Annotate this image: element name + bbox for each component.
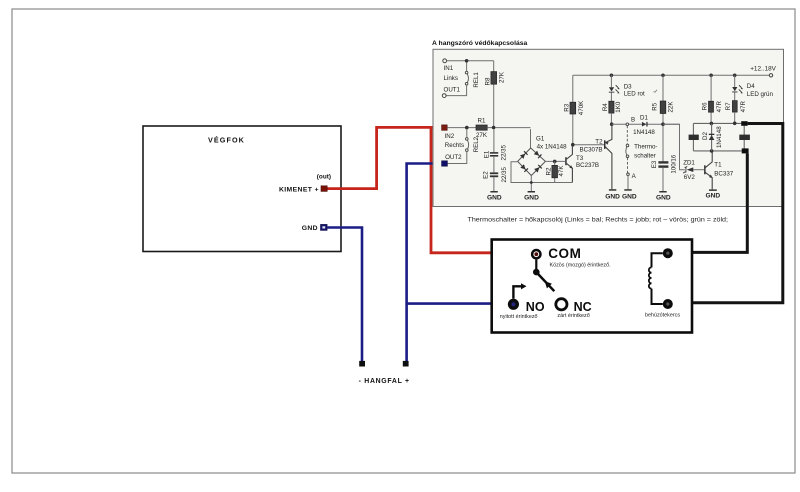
thick wire outer (upper terminal to coil bottom) bbox=[671, 124, 783, 303]
svg-text:27K: 27K bbox=[499, 71, 506, 83]
svg-text:T2: T2 bbox=[595, 139, 603, 146]
amplifier box VEGFOK bbox=[143, 126, 341, 252]
wire GND to speaker minus (blue) bbox=[328, 228, 363, 362]
relay NC terminal bbox=[556, 299, 592, 320]
terminal speaker plus bbox=[403, 361, 409, 367]
diode bridge G1 bbox=[518, 129, 567, 175]
svg-text:Links: Links bbox=[444, 75, 458, 82]
svg-text:R5: R5 bbox=[652, 102, 659, 110]
relay coil second rect bbox=[739, 126, 750, 149]
svg-text:GND: GND bbox=[524, 194, 539, 201]
svg-text:4x 1N4148: 4x 1N4148 bbox=[537, 144, 567, 151]
label (out) bbox=[317, 173, 331, 180]
node B wire with D1 bbox=[610, 117, 680, 126]
svg-text:NO: NO bbox=[526, 300, 545, 314]
ground under T2 bbox=[605, 189, 620, 200]
ground under T1 bbox=[705, 189, 720, 199]
relay coil behuzotekercs bbox=[645, 248, 680, 318]
svg-text:47R: 47R bbox=[740, 100, 747, 112]
svg-text:E3: E3 bbox=[651, 160, 658, 168]
svg-text:22K: 22K bbox=[668, 101, 675, 113]
node IN1 bbox=[443, 59, 454, 72]
relay NO terminal bbox=[500, 283, 545, 320]
terminal GND bbox=[302, 224, 327, 232]
node OUT1 bbox=[442, 87, 460, 98]
capacitor E2 bbox=[482, 157, 508, 183]
svg-text:D3: D3 bbox=[624, 84, 632, 91]
diode D1 bbox=[633, 114, 655, 135]
svg-text:Rechts: Rechts bbox=[445, 142, 464, 149]
svg-text:G1: G1 bbox=[536, 136, 545, 143]
svg-text:OUT1: OUT1 bbox=[444, 87, 461, 94]
svg-text:B: B bbox=[631, 117, 635, 124]
wire IN2 node to relay COM (red) bbox=[431, 127, 533, 252]
svg-text:REL1: REL1 bbox=[473, 72, 480, 88]
label HANGFAL bbox=[359, 378, 410, 385]
svg-text:IN2: IN2 bbox=[445, 133, 455, 140]
svg-text:100/16: 100/16 bbox=[670, 154, 677, 173]
zener ZD1 bbox=[663, 124, 704, 181]
svg-text:E2: E2 bbox=[482, 171, 489, 179]
svg-text:GND: GND bbox=[656, 194, 671, 201]
svg-text:BC337: BC337 bbox=[714, 170, 733, 177]
svg-text:GND: GND bbox=[622, 193, 637, 200]
wire T3 collector to T2 base bbox=[571, 143, 604, 147]
svg-text:ZD1: ZD1 bbox=[683, 160, 695, 167]
svg-text:T3: T3 bbox=[576, 155, 584, 162]
terminal OUT2 bbox=[442, 154, 463, 166]
svg-text:A hangszóró védőkapcsolása: A hangszóró védőkapcsolása bbox=[432, 40, 528, 47]
svg-text:1N4148: 1N4148 bbox=[633, 129, 655, 136]
svg-text:VÉGFOK: VÉGFOK bbox=[208, 136, 245, 145]
resistor R8 bbox=[485, 61, 506, 128]
relay box bbox=[492, 240, 692, 333]
resistor R5 bbox=[652, 75, 675, 161]
caption text bbox=[468, 217, 729, 224]
ground under G1 bbox=[524, 176, 539, 202]
relay contact REL1 bbox=[444, 62, 480, 95]
svg-text:47R: 47R bbox=[716, 100, 723, 112]
svg-text:GND: GND bbox=[487, 194, 502, 201]
coil terminal upper bbox=[741, 121, 747, 126]
svg-text:1N4148: 1N4148 bbox=[716, 126, 723, 148]
svg-text:6V2: 6V2 bbox=[684, 174, 696, 181]
svg-text:nyitott érintkező: nyitott érintkező bbox=[500, 314, 538, 320]
svg-text:BC307B: BC307B bbox=[580, 146, 603, 153]
svg-text:Thermo-: Thermo- bbox=[634, 144, 657, 151]
relay contact REL2 bbox=[445, 129, 480, 163]
svg-text:R8: R8 bbox=[485, 77, 492, 85]
relay switch arm bbox=[533, 260, 554, 292]
resistor R4 bbox=[602, 101, 622, 124]
svg-text:zárt érintkező: zárt érintkező bbox=[557, 313, 589, 319]
svg-text:22/35: 22/35 bbox=[501, 144, 508, 160]
svg-text:R2: R2 bbox=[546, 167, 553, 175]
coil network rails bbox=[693, 122, 741, 153]
resistor R7 bbox=[725, 100, 747, 123]
svg-text:GND: GND bbox=[705, 193, 720, 200]
svg-text:T1: T1 bbox=[714, 161, 722, 168]
thick wire inner (lower terminal to coil top) bbox=[671, 153, 747, 252]
svg-text:BC237B: BC237B bbox=[576, 162, 599, 169]
capacitor E3 bbox=[651, 154, 677, 191]
svg-text:R6: R6 bbox=[702, 102, 709, 110]
wire OUT2 to speaker plus (blue) bbox=[407, 164, 442, 362]
svg-text:D1: D1 bbox=[640, 114, 648, 121]
LED D3 bbox=[609, 75, 645, 101]
thermoswitch bbox=[626, 126, 658, 190]
svg-text:R7: R7 bbox=[725, 102, 732, 110]
transistor T3 bbox=[565, 145, 599, 183]
svg-text:R4: R4 bbox=[602, 103, 609, 111]
diode D2 bbox=[702, 123, 723, 150]
svg-text:(out): (out) bbox=[317, 173, 331, 180]
relay coil REL (rect symbol) bbox=[689, 135, 699, 140]
svg-text:- HANGFAL +: - HANGFAL + bbox=[359, 378, 410, 385]
bridge left corner wire to gnd rail bbox=[511, 162, 572, 183]
transistor T2 bbox=[580, 126, 612, 190]
svg-text:22/35: 22/35 bbox=[501, 166, 508, 182]
resistor R3 bbox=[564, 75, 586, 144]
terminal speaker minus bbox=[359, 361, 365, 367]
svg-text:OUT2: OUT2 bbox=[445, 154, 462, 161]
svg-text:NC: NC bbox=[574, 300, 592, 314]
svg-text:470K: 470K bbox=[578, 100, 585, 115]
svg-text:R1: R1 bbox=[478, 118, 486, 125]
svg-text:LED rot: LED rot bbox=[624, 91, 645, 98]
supply rail +12..18V bbox=[573, 65, 777, 77]
terminal KIMENET + bbox=[279, 186, 327, 194]
svg-text:REL2: REL2 bbox=[473, 136, 480, 152]
svg-text:E1: E1 bbox=[483, 150, 490, 158]
stray mark bbox=[654, 90, 658, 93]
transistor T1 bbox=[704, 151, 734, 189]
svg-text:D2: D2 bbox=[702, 131, 709, 139]
svg-text:IN1: IN1 bbox=[444, 65, 454, 72]
svg-text:R3: R3 bbox=[564, 103, 571, 111]
svg-text:behúzótekercs: behúzótekercs bbox=[645, 312, 680, 318]
svg-text:47K: 47K bbox=[558, 165, 565, 177]
capacitor E1 bbox=[483, 129, 507, 160]
wire speaker plus branch to relay NO (blue) bbox=[407, 302, 510, 305]
terminal IN2 bbox=[442, 125, 455, 140]
svg-text:LED grün: LED grün bbox=[747, 91, 774, 98]
svg-text:GND: GND bbox=[605, 193, 620, 200]
resistor R2 bbox=[546, 161, 565, 182]
wire IN1 to R8 top bbox=[447, 59, 494, 63]
wire bridge right corner to T3 base bbox=[545, 160, 565, 164]
ground under E2 bbox=[487, 177, 502, 201]
wire IN2 to R1 bbox=[447, 126, 476, 130]
svg-text:COM: COM bbox=[548, 246, 581, 261]
schematic title bbox=[432, 40, 528, 47]
svg-text:GND: GND bbox=[302, 225, 318, 232]
svg-text:Közös (mozgó) érintkező.: Közös (mozgó) érintkező. bbox=[550, 262, 611, 268]
svg-text:D4: D4 bbox=[747, 83, 755, 90]
ground under E3 bbox=[656, 191, 671, 201]
svg-text:Thermoschalter = hőkapcsolój: Thermoschalter = hőkapcsolój (Links = ba… bbox=[468, 217, 729, 224]
coil terminal lower bbox=[742, 148, 749, 153]
schematic frame bbox=[433, 49, 784, 206]
ground under thermoswitch bbox=[622, 189, 637, 200]
svg-text:schalter: schalter bbox=[634, 153, 656, 160]
resistor R1 bbox=[476, 118, 531, 139]
svg-text:1K0: 1K0 bbox=[615, 101, 622, 113]
svg-text:+12..18V: +12..18V bbox=[750, 65, 776, 72]
resistor R6 bbox=[702, 75, 724, 123]
LED D4 bbox=[732, 75, 773, 100]
relay COM terminal bbox=[531, 246, 611, 268]
wire KIMENET to IN2 (red) bbox=[328, 127, 442, 188]
svg-text:KIMENET +: KIMENET + bbox=[279, 186, 319, 193]
